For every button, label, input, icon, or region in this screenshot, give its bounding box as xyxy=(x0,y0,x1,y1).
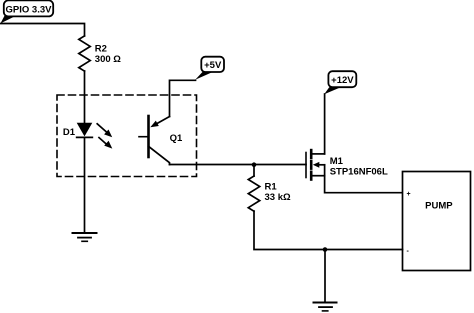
wire Q1 collector to +5V xyxy=(170,80,196,116)
resistor R1 xyxy=(248,176,259,211)
ground (node B) xyxy=(314,303,337,311)
phototransistor Q1 xyxy=(139,116,170,165)
svg-text:Q1: Q1 xyxy=(170,133,183,144)
svg-text:+: + xyxy=(407,191,411,198)
node B junction xyxy=(323,247,328,252)
value label R2 300 Ω xyxy=(95,43,121,65)
svg-text:R1: R1 xyxy=(265,181,278,192)
label M1 STP16NF06L xyxy=(330,156,388,178)
svg-text:STP16NF06L: STP16NF06L xyxy=(330,167,388,178)
mosfet M1 xyxy=(306,150,325,179)
svg-text:D1: D1 xyxy=(63,127,76,138)
value label R1 33 kΩ xyxy=(265,181,291,203)
wire node B to ground xyxy=(324,250,326,303)
optocoupler dashed enclosure xyxy=(57,95,197,177)
LED light emission arrows xyxy=(97,124,112,149)
node A junction xyxy=(252,162,257,167)
wire node A to R1 xyxy=(253,165,255,177)
wire R2 to D1 xyxy=(84,71,86,123)
net flag +12V xyxy=(324,71,356,94)
svg-text:+12V: +12V xyxy=(331,75,354,86)
svg-text:+5V: +5V xyxy=(204,60,222,71)
wire node A to M1 gate xyxy=(254,164,306,166)
svg-text:R2: R2 xyxy=(95,43,107,54)
net flag +5V xyxy=(195,57,224,80)
svg-text:33 kΩ: 33 kΩ xyxy=(265,192,291,203)
wire Q1 emitter to node A xyxy=(170,164,255,166)
svg-text:300 Ω: 300 Ω xyxy=(95,54,121,65)
wire +12V to M1 drain xyxy=(324,94,326,154)
wire D1 to ground xyxy=(84,137,86,233)
wire R1 to node B xyxy=(254,211,325,249)
wire M1 source to PUMP + xyxy=(325,176,403,193)
resistor R2 xyxy=(79,36,90,71)
pump box xyxy=(403,172,471,271)
LED D1 xyxy=(77,123,93,138)
svg-text:M1: M1 xyxy=(330,156,344,167)
ground (LED cathode) xyxy=(73,233,97,241)
svg-text:GPIO 3.3V: GPIO 3.3V xyxy=(6,4,53,15)
net flag GPIO 3.3V xyxy=(1,0,54,23)
svg-text:PUMP: PUMP xyxy=(425,201,453,212)
wire GPIO to R2 xyxy=(1,24,85,36)
wire PUMP - to node B xyxy=(325,249,403,251)
